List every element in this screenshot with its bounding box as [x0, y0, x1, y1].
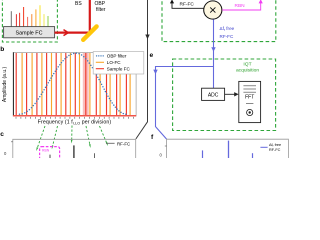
svg-text:RF-FC: RF-FC [117, 141, 130, 146]
green dashed mapping arrows [37, 126, 45, 149]
legend OBP filter [96, 55, 104, 56]
Sample FC comb teeth (red) [16, 53, 126, 116]
svg-text:Amplitude (a.u.): Amplitude (a.u.) [2, 67, 8, 103]
svg-text:OBP filter: OBP filter [107, 54, 127, 59]
svg-text:b: b [0, 46, 4, 53]
svg-text:acquisition: acquisition [236, 68, 259, 74]
svg-text:FFT: FFT [245, 95, 254, 101]
svg-text:IQT: IQT [243, 61, 251, 67]
svg-text:RBN: RBN [235, 3, 246, 9]
svg-text:Sample FC: Sample FC [107, 67, 131, 72]
green dashed box IQT acquisition [173, 59, 276, 131]
panel a green dashed enclosure (sample comb source) [2, 0, 57, 42]
svg-text:LO-FC: LO-FC [107, 60, 121, 65]
svg-text:RF-FC: RF-FC [269, 148, 281, 152]
wire: blue line mixer down to ADC [213, 19, 215, 88]
svg-text:e: e [150, 52, 154, 59]
svg-text:ADC: ADC [208, 93, 219, 99]
sample comb spectrum lines [11, 5, 48, 26]
svg-text:filter: filter [96, 7, 106, 13]
panel b legend box [93, 52, 144, 74]
red beam arrowhead [64, 30, 69, 36]
svg-text:c: c [0, 131, 4, 138]
OBP filter dotted curve [19, 52, 127, 114]
magenta dashed RBN box [40, 147, 60, 161]
small tooth in RBN box [49, 155, 51, 158]
comb baseline (salmon) [13, 115, 136, 117]
panel b frame [13, 52, 136, 116]
wire: red beam horizontal from Sample FC to mirror [55, 31, 91, 33]
OBP filter mirror (yellow 45 deg) [83, 26, 96, 39]
small RF comb tooth right [94, 153, 96, 158]
RF comb teeth blue [202, 150, 204, 158]
svg-text:BS: BS [75, 1, 82, 7]
legend LO-FC [96, 61, 104, 63]
wire: red beam vertical up to BS [89, 0, 91, 34]
RF-FC legend in panel c [106, 142, 115, 144]
mixer X [204, 1, 222, 19]
Sample FC box [4, 27, 55, 38]
svg-text:Sample FC: Sample FC [16, 31, 43, 37]
LO-FC comb teeth (orange) [22, 53, 130, 116]
svg-text:RBN: RBN [42, 148, 50, 152]
panel f frame [167, 139, 289, 158]
x axis minor ticks [16, 117, 134, 119]
panel f legend [260, 146, 267, 148]
svg-text:RF-FC: RF-FC [180, 2, 195, 8]
wire: black line from top to panel c [136, 0, 148, 139]
wire: blue branch to panel f [156, 67, 214, 140]
green dashed box (RF-FC generation) [162, 0, 276, 42]
wire: RBN magenta line [222, 1, 261, 10]
tall RF comb tooth [73, 145, 75, 158]
FFT computer box [239, 81, 261, 122]
wire: ADC to FFT arrow [225, 93, 236, 95]
ADC box [202, 88, 225, 100]
svg-text:RF-FC: RF-FC [220, 34, 234, 39]
wire: RF-FC input line with up arrow [172, 1, 204, 9]
panel c frame [13, 139, 136, 158]
pink highlight band [83, 53, 89, 116]
black arrowhead down [145, 35, 149, 40]
legend Sample FC [96, 68, 104, 70]
